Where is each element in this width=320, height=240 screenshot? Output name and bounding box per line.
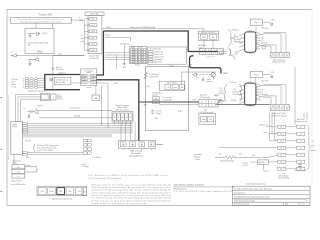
- svg-text:T-(P-4): (Controls), T/R (&): T-(P-4): (Controls), T/R (&) (dev-5): [88, 177, 121, 180]
- svg-text:Fig 3: Fig 3: [254, 22, 258, 24]
- svg-text:T-X: T-X: [10, 52, 13, 54]
- svg-text:0 v: 0 v: [17, 176, 19, 178]
- svg-text:(MG) (unused) (Rsrv) (w-b): (MG) (unused) (Rsrv) (w-b): [52, 198, 73, 201]
- svg-text:Ch: Ch: [167, 87, 169, 89]
- svg-text:1x: 1x: [24, 108, 26, 110]
- svg-text:P4-1B: P4-1B: [135, 64, 139, 66]
- svg-text:Cable: Cable: [106, 27, 111, 29]
- svg-text:(buzzer): (buzzer): [207, 81, 213, 83]
- svg-text:(1v2): (1v2): [147, 86, 151, 88]
- svg-text:(Tandem (Gate) (Pinnacle)): (Tandem (Gate) (Pinnacle)): [28, 41, 49, 44]
- svg-text:(T3): (T3): [220, 88, 223, 90]
- svg-text:(WPT): (WPT): [218, 100, 223, 102]
- svg-text:wire: wire: [249, 81, 252, 83]
- svg-text:(4-40): (4-40): [235, 39, 240, 41]
- svg-text:(T-only) (p-p): (T-only) (p-p): [84, 70, 93, 72]
- svg-text:n=d: n=d: [174, 87, 177, 89]
- svg-text:Tab 6: Tab 6: [280, 162, 284, 164]
- svg-text:Remarks (unless) the (whole),: Remarks (unless) the (whole), you are to…: [92, 183, 171, 186]
- svg-text:WARM: WARM: [223, 72, 229, 75]
- svg-text:Gen: Gen: [78, 191, 81, 193]
- svg-text:wire: wire: [249, 106, 252, 108]
- svg-text:(W-E) (T): (W-E) (T): [59, 72, 66, 74]
- svg-text:B8: B8: [95, 98, 97, 100]
- svg-text:J-2: J-2: [300, 134, 302, 136]
- svg-text:Picaxe USB: Picaxe USB: [39, 14, 52, 17]
- svg-text:(sel) (res) (mode): (sel) (res) (mode): [166, 83, 177, 85]
- svg-text:Wet pins & dims: Wet pins & dims: [116, 109, 129, 112]
- svg-text:(Tall wire): (Tall wire): [230, 82, 237, 84]
- svg-text:1 of 1: 1 of 1: [301, 204, 305, 206]
- svg-text:Tab 1: Tab 1: [280, 127, 284, 129]
- svg-text:Gnd: Gnd: [196, 78, 199, 80]
- svg-text:24V+: 24V+: [252, 155, 256, 157]
- svg-text:Tab 7: Tab 7: [280, 169, 284, 171]
- svg-text:A-4: A-4: [92, 36, 95, 39]
- svg-text:| (p) (mode): | (p) (mode): [154, 59, 163, 61]
- svg-text:(#P-04) (ab-fg): (#P-04) (ab-fg): [200, 97, 211, 99]
- svg-text:(Tracker) (rev): (Tracker) (rev): [234, 192, 245, 195]
- svg-text:PW-1: PW-1: [82, 82, 86, 84]
- svg-text:(P-B): (P-B): [178, 111, 182, 113]
- svg-text:GND: GND: [26, 157, 30, 159]
- svg-text:Size (A4) (Multi) high voltage: Size (A4) (Multi) high voltage (Schem) (…: [234, 196, 269, 199]
- svg-text:Tab 5: Tab 5: [280, 155, 284, 157]
- svg-text:+ (was) (USB) cables: + (was) (USB) cables: [10, 184, 25, 186]
- svg-text:(4T)(8L4): (4T)(8L4): [230, 100, 237, 102]
- svg-text:A: A: [79, 17, 81, 20]
- svg-text:Dated: (january) 2-04: Dated: (january) 2-04: [234, 203, 249, 206]
- svg-text:(Tandem pin): (Tandem pin): [89, 55, 99, 57]
- svg-text:(c) 2004 by TinMan Corp, drawn: (c) 2004 by TinMan Corp, drawn w Star El…: [234, 187, 272, 190]
- svg-text:MxB: MxB: [202, 37, 206, 39]
- svg-text:(host): (host): [80, 40, 85, 43]
- svg-text:(P4): (P4): [204, 110, 207, 112]
- svg-text:(p0-1B): (p0-1B): [152, 95, 158, 97]
- svg-text:(Devterm)(pin): (Devterm)(pin): [152, 91, 163, 94]
- svg-text:1: 1: [53, 97, 55, 99]
- svg-text:(TCY internal): (TCY internal): [257, 42, 269, 45]
- svg-text:(W): (W): [239, 153, 242, 155]
- svg-text:PW-1: PW-1: [92, 79, 96, 81]
- svg-text:(no scale): (no scale): [56, 69, 64, 71]
- svg-text:A4-3: A4-3: [92, 30, 95, 33]
- svg-text:(1 Gx): (1 Gx): [12, 86, 17, 88]
- svg-text:(P.S): (P.S): [235, 37, 239, 39]
- svg-text:GBx: GBx: [155, 118, 159, 120]
- svg-text:(sel) (o) dn: (sel) (o) dn: [154, 62, 162, 64]
- svg-text:A4-6: A4-6: [92, 49, 95, 52]
- svg-text:(J-124): (J-124): [243, 165, 249, 167]
- svg-text:(Spare 5V) (F): (Spare 5V) (F): [11, 181, 22, 183]
- svg-text:BK-W: BK-W: [140, 62, 144, 64]
- svg-text:Red: Red: [202, 119, 205, 121]
- svg-text:(0.45s): (0.45s): [195, 159, 200, 161]
- svg-text:(two) in (the) right (of) (rig: (two) in (the) right (of) (right) (the (…: [92, 191, 172, 194]
- svg-text:TP-2: TP-2: [271, 20, 275, 22]
- svg-text:(a) (b) (c) (d): (a) (b) (c) (d): [206, 56, 215, 58]
- svg-text:(back): (back): [13, 163, 18, 165]
- svg-text:10k: 10k: [180, 87, 183, 89]
- svg-text:(W 5nd): (W 5nd): [12, 79, 18, 81]
- svg-text:(To USB p.s): (To USB p.s): [93, 157, 103, 159]
- svg-text:(sym): (sym): [79, 20, 83, 22]
- svg-text:draw 2/28 (Rev) (X) (Kuffier): draw 2/28 (Rev) (X) (Kuffier) standard o…: [20, 20, 61, 23]
- svg-text:R10: R10: [12, 82, 15, 84]
- svg-text:(mode): (mode): [86, 72, 91, 74]
- svg-text:(Chess): (Chess): [243, 163, 249, 165]
- svg-text:(Model): (Model): [75, 116, 81, 118]
- svg-text:DB: DB: [60, 191, 63, 193]
- svg-text:Fig 101: Fig 101: [105, 35, 111, 37]
- svg-text:TP-1: TP-1: [271, 72, 275, 74]
- svg-text:WET: WET: [193, 99, 196, 101]
- svg-text:PW-1: PW-1: [82, 79, 86, 81]
- svg-text:TX/D: TX/D: [123, 67, 127, 69]
- svg-text:To: To: [81, 35, 83, 37]
- svg-text:GRN: GRN: [114, 83, 119, 85]
- svg-text:Cable: Cable: [58, 54, 62, 56]
- svg-text:(Stand) (Harness): (Stand) (Harness): [129, 154, 143, 157]
- svg-text:Fig 2: Fig 2: [254, 75, 258, 77]
- svg-text:(wiring) (harness) (x-y) (C): (wiring) (harness) (x-y) (C): [28, 91, 47, 93]
- svg-text:(W Spacing): (W Spacing): [279, 175, 288, 177]
- svg-text:(Fig.Number): (Fig.Number): [120, 43, 130, 45]
- svg-text:(TP)(wire): (TP)(wire): [232, 29, 240, 31]
- svg-text:Tab 4: Tab 4: [280, 148, 284, 150]
- svg-text:Blk: Blk: [210, 119, 212, 121]
- svg-text:(W): (W): [219, 153, 222, 155]
- svg-text:Tab 2: Tab 2: [280, 134, 284, 136]
- svg-text:Tab 3: Tab 3: [280, 141, 284, 143]
- svg-text:A: A: [130, 116, 132, 119]
- svg-text:PW-1: PW-1: [92, 82, 96, 84]
- svg-text:A4-1: A4-1: [92, 18, 95, 21]
- svg-text:(usb): (usb): [80, 38, 84, 40]
- svg-text:Side: MG Piece Battery Top B: Side: MG Piece Battery Top Board: [174, 183, 204, 186]
- svg-text:(+5/12 VDC COM): (+5/12 VDC COM): [37, 150, 53, 152]
- svg-text:Micro: Micro: [207, 79, 211, 81]
- svg-text:(And) 1-(1A): (And) 1-(1A): [56, 81, 66, 84]
- svg-text:wire: wire: [249, 53, 252, 55]
- svg-text:Male 0.047: Male 0.047: [297, 119, 305, 121]
- svg-text:TP-5 TP-6: TP-5 TP-6: [261, 81, 269, 83]
- svg-text:(W) (BV) (1/4) (ohm): (W) (BV) (1/4) (ohm): [220, 161, 234, 163]
- svg-text:Fuse: Fuse: [263, 132, 267, 134]
- svg-text:(board): (board): [310, 150, 316, 152]
- svg-text:A: A: [126, 116, 128, 119]
- svg-text:(T 1) (Control): (T 1) (Control): [150, 47, 161, 50]
- svg-text:PW-1: PW-1: [92, 75, 96, 77]
- svg-text:(4-W (x)): (4-W (x)): [219, 93, 225, 95]
- svg-text:J-4: J-4: [300, 148, 302, 150]
- svg-text:GRN: GRN: [188, 64, 193, 66]
- svg-text:(Wrap): (Wrap): [156, 113, 162, 115]
- svg-text:macro: macro: [87, 86, 92, 89]
- svg-text:(circuit) (NC): (circuit) (NC): [162, 99, 172, 102]
- svg-text:(W-RD): (W-RD): [57, 97, 63, 99]
- svg-text:W-BK: W-BK: [132, 62, 136, 64]
- svg-text:A4-2: A4-2: [92, 24, 95, 27]
- svg-text:(each) your (only) (catalog) (: (each) your (only) (catalog) (the) (vdc/…: [92, 189, 172, 192]
- svg-text:(D): (D): [28, 45, 31, 47]
- svg-text:(chemistry): (chemistry): [194, 153, 202, 156]
- svg-text:(ps) 1: (ps) 1: [57, 95, 61, 97]
- svg-text:(sht): (sht): [285, 203, 289, 206]
- svg-text:TVS: TVS: [40, 191, 44, 193]
- svg-text:PW-1: PW-1: [82, 75, 86, 77]
- svg-text:J-1: J-1: [300, 127, 302, 129]
- svg-text:(m)(in): (m)(in): [235, 51, 240, 53]
- svg-text:(To): (To): [233, 89, 236, 91]
- svg-text:(RED/WHT)(BLK/WHT): (RED/WHT)(BLK/WHT): [201, 32, 216, 34]
- svg-text:(Fan): (Fan): [256, 48, 260, 50]
- svg-text:Rxd: Rxd: [17, 167, 20, 169]
- svg-text:Gen: Gen: [68, 191, 71, 193]
- svg-text:(1k(band)): (1k(band)): [149, 77, 158, 79]
- svg-text:(c) (East by Tooling) (Comp): (c) (East by Tooling) (Comp): [246, 182, 266, 185]
- svg-text:A: A: [122, 116, 124, 119]
- svg-text:This (visually) is unperformed: This (visually) is unperformed. As you m…: [92, 186, 172, 189]
- svg-text:A: A: [114, 116, 116, 119]
- svg-text:Txd: Txd: [17, 171, 20, 173]
- svg-text:A: A: [118, 116, 120, 119]
- svg-text:(ex. (the) 4.7 (two) (to) (one: (ex. (the) 4.7 (two) (to) (one) ion (pin…: [92, 197, 172, 200]
- svg-text:To: To: [312, 141, 314, 143]
- svg-text:VIOLET: VIOLET: [25, 140, 31, 142]
- svg-text:J-3: J-3: [300, 141, 302, 143]
- svg-text:(Female pin block): (Female pin block): [272, 116, 287, 118]
- svg-text:HMC(+) cell: HMC(+) cell: [260, 125, 269, 127]
- svg-text:wire: wire: [249, 30, 252, 32]
- svg-text:Heavy wire and 20 AWG (p-cbl): Heavy wire and 20 AWG (p-cbl): [130, 26, 155, 29]
- svg-text:Mx: Mx: [212, 37, 214, 39]
- svg-text:Tab: Tab: [282, 173, 285, 175]
- svg-text:J-5: J-5: [300, 155, 302, 157]
- svg-text:ZTX-2: ZTX-2: [37, 50, 42, 52]
- svg-text:(Faston pin block): (Faston pin block): [272, 61, 286, 64]
- svg-text:(we are (if you do it yourself: (we are (if you do it yourself) (screw))…: [92, 194, 172, 197]
- svg-text:(Tests) and (an x-y) (p-y) (ca: (Tests) and (an x-y) (p-y) (can) (later)…: [92, 199, 172, 202]
- svg-text:P-O: P(D): 0-5 (DC-DC) (+5V: P-O: P(D): 0-5 (DC-DC) (+5V) (use) (rand…: [174, 190, 233, 193]
- svg-text:(TCY internal): (TCY internal): [257, 93, 269, 96]
- svg-text:Black 2B: Black 2B: [259, 162, 265, 164]
- svg-text:(Plug): (Plug): [13, 126, 18, 128]
- svg-text:(T-10): (T-10): [256, 100, 261, 102]
- svg-text:(Rsv)-3: (Rsv)-3: [82, 164, 87, 166]
- svg-text:(To rear Board): (To rear Board): [278, 178, 289, 180]
- svg-text:(Batteries): (Batteries): [200, 93, 208, 96]
- svg-text:(Charge) (T)+: (Charge) (T)+: [70, 107, 80, 110]
- svg-text:switch: switch: [169, 64, 174, 67]
- svg-text:(p/n)-2: (p/n)-2: [38, 105, 43, 107]
- svg-text:| 1 BUTTON: | 1 BUTTON: [154, 51, 164, 53]
- svg-text:1B: 1B: [83, 191, 85, 193]
- svg-text:(Fust): (Fust): [49, 190, 54, 193]
- svg-text:T-X: (Switches) of USB/TC pts: T-X: (Switches) of USB/TC pts 4 (switche…: [88, 174, 168, 177]
- svg-text:A4-5: A4-5: [92, 43, 95, 46]
- svg-text:(ZTX) 1: (ZTX) 1: [42, 33, 48, 35]
- svg-text:Board (document) (number): Board (document) (number): [236, 200, 256, 203]
- svg-text:WET: WET: [144, 104, 148, 106]
- svg-text:TP-3 TP-4: TP-3 TP-4: [261, 28, 269, 30]
- svg-text:(Cable) (and) (a-c) (sharing): (Cable) (and) (a-c) (sharing) (p) (b) (a…: [92, 202, 147, 205]
- svg-text:1a: 1a: [155, 98, 157, 100]
